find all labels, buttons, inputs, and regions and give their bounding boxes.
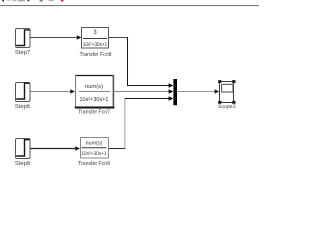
canvas background [0, 0, 259, 183]
transfer function block TransferFcn8 [82, 28, 109, 49]
arrowhead into Mux input2 [169, 89, 174, 94]
wire Step8 to TransferFcn9 [30, 148, 77, 150]
selection handle scope bottom-right [232, 101, 235, 104]
arrowhead into TransferFcn9 [75, 146, 80, 150]
svg-text:Step7: Step7 [15, 49, 30, 56]
toolbar separator line [0, 5, 259, 6]
transfer function block TransferFcn7 [75, 75, 115, 108]
svg-text:Step8: Step8 [15, 160, 30, 167]
mux Mux [173, 79, 177, 105]
svg-text:Scope3: Scope3 [218, 104, 236, 110]
toolbar icon speck blue [40, 0, 43, 2]
toolbar remnant background [0, 0, 259, 5]
scope block Scope3 [220, 82, 234, 103]
selection handle scope top-right [232, 80, 235, 83]
svg-text:Step6: Step6 [15, 103, 30, 110]
step block Step8 [16, 139, 31, 159]
svg-text:10s²+30s+1: 10s²+30s+1 [81, 151, 107, 157]
arrowhead into Mux input1 [169, 83, 174, 88]
arrowhead into TransferFcn7 [70, 89, 75, 93]
wire TransferFcn9 to Mux input3 [109, 148, 126, 150]
svg-text:Transfer Fcn9: Transfer Fcn9 [78, 160, 110, 167]
selection handle scope bottom-left [218, 101, 221, 104]
svg-text:10s²+30s+1: 10s²+30s+1 [80, 96, 110, 103]
svg-text:10s²+30s+1: 10s²+30s+1 [83, 42, 108, 48]
toolbar icon speck gray3 [49, 0, 54, 1]
toolbar icon speck gray group [7, 0, 11, 1]
wire Step6 to TransferFcn7 [30, 91, 72, 93]
svg-text:3: 3 [93, 29, 97, 36]
svg-text:num(s): num(s) [85, 83, 103, 90]
svg-text:Transfer Fcn8: Transfer Fcn8 [80, 51, 112, 58]
arrowhead into Scope3 [215, 89, 220, 93]
selection handle scope top-left [218, 80, 221, 83]
toolbar icon speck dark2 [27, 0, 29, 1]
svg-text:num(s): num(s) [86, 141, 103, 147]
arrowhead into Mux input3 [169, 96, 174, 101]
wire TransferFcn7 to Mux input2 [114, 91, 169, 93]
toolbar icon speck red [61, 0, 64, 2]
svg-text:Transfer Fcn7: Transfer Fcn7 [78, 109, 110, 116]
wire Step7 to TransferFcn8 [30, 37, 78, 39]
step block Step6 [16, 83, 31, 102]
toolbar icon speck dark [2, 0, 4, 2]
arrowhead into TransferFcn8 [77, 35, 82, 39]
step block Step7 [16, 29, 31, 48]
wire Mux to Scope3 [177, 91, 216, 93]
transfer function block TransferFcn9 [81, 138, 109, 159]
wire TransferFcn8 to Mux input1 [109, 37, 128, 39]
